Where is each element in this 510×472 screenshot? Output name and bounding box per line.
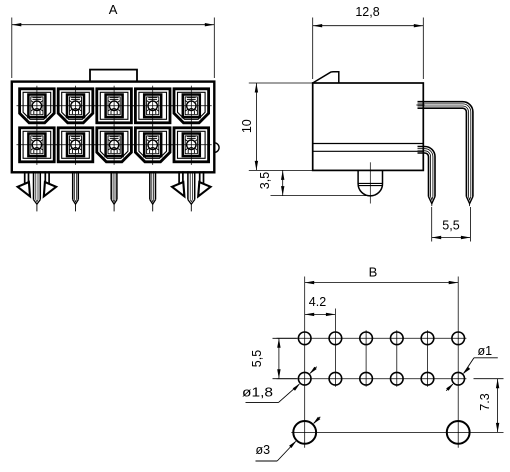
- pin upper row side view (right angle): [418, 102, 473, 206]
- row 2 centerline: [277, 378, 467, 380]
- dimension 7.3 extension top: [474, 378, 504, 380]
- dimension 10 extension bottom: [249, 169, 318, 171]
- label diameter 1 with leader: [446, 344, 498, 391]
- cavity bottom row position 4: [132, 125, 173, 165]
- big holes centerline: [291, 431, 503, 433]
- pin hole row 2 col 2 (diameter 1): [329, 372, 342, 385]
- dimension A extension line right: [213, 18, 215, 79]
- connector housing side view body: [313, 83, 424, 170]
- dimension 12,8 extension line left: [312, 18, 314, 80]
- svg-text:3,5: 3,5: [258, 172, 272, 189]
- column line 1: [304, 277, 306, 448]
- column line 6: [457, 277, 459, 448]
- pin 4 front view: [150, 171, 156, 211]
- pin lower row side view (right angle): [418, 147, 436, 207]
- dimension 10 line with arrows: [255, 83, 258, 170]
- dimension 4.2 line with arrows: [305, 313, 336, 316]
- pin 2 front view: [73, 171, 79, 211]
- dimension 5,5 side line with arrows: [432, 236, 471, 239]
- cavity top row position 5: [171, 86, 212, 126]
- dimension 5,5 footprint extension top: [273, 337, 297, 339]
- row 1 centerline: [277, 337, 467, 339]
- pin hole row 1 col 2 (diameter 1): [329, 332, 342, 345]
- mounting peg side view: [358, 170, 382, 196]
- peg chord line 1: [358, 182, 382, 184]
- cavity bottom row position 3: [94, 125, 135, 165]
- dimension A extension line left: [11, 18, 13, 79]
- dimension 5,5 side extension right: [469, 207, 471, 242]
- svg-text:B: B: [369, 265, 378, 280]
- pin hole row 1 col 1 (diameter 1): [298, 332, 311, 345]
- pin hole row 1 col 4 (diameter 1): [391, 332, 404, 345]
- svg-text:ø3: ø3: [256, 443, 271, 457]
- pin hole row 1 col 6 (diameter 1): [452, 332, 465, 345]
- pin hole row 2 col 3 (diameter 1): [360, 372, 373, 385]
- dimension 10 extension top: [249, 82, 313, 84]
- cavity bottom row position 2: [55, 125, 96, 165]
- peg hole left (diameter 3): [293, 421, 316, 444]
- dimension 5,5 side extension left: [431, 207, 433, 242]
- peg centerline: [369, 162, 371, 203]
- cavity top row position 2: [55, 86, 96, 126]
- dimension 5,5 footprint extension bottom: [273, 378, 297, 380]
- flange line lower: [313, 150, 424, 152]
- pin hole row 2 col 1 (diameter 1): [298, 372, 311, 385]
- label diameter 1,8 with leader: [242, 367, 317, 403]
- retention peg with barbs position 1: [18, 171, 57, 196]
- label diameter 3 with leader: [256, 417, 321, 461]
- pin hole row 2 col 6 (diameter 1): [452, 372, 465, 385]
- dimension 3,5 line with arrows: [281, 170, 284, 195]
- column line 5: [427, 330, 429, 387]
- dimension 5,5 footprint line with arrows: [277, 338, 280, 378]
- cavity top row position 4: [132, 86, 173, 126]
- svg-text:4.2: 4.2: [309, 295, 326, 309]
- pin center tick upper: [416, 104, 424, 106]
- connector housing front view body: [12, 82, 215, 173]
- peg hole right (diameter 3): [447, 421, 470, 444]
- dimension 12,8 line with arrows: [313, 24, 424, 27]
- cavity bottom row position 1: [17, 125, 58, 165]
- dimension B line with arrows: [305, 281, 459, 284]
- polarization bump right side: [214, 143, 219, 153]
- top mounting tab: [90, 70, 137, 82]
- column line 4: [396, 330, 398, 387]
- latch tab side view: [313, 72, 339, 83]
- peg chord line 2: [358, 185, 382, 187]
- dimension 7.3 line with arrows: [496, 379, 499, 433]
- pin 1 front view: [34, 171, 41, 211]
- svg-text:10: 10: [240, 119, 254, 133]
- column line 3: [365, 330, 367, 387]
- dimension 12,8 extension line right: [422, 18, 424, 80]
- cavity bottom row position 5: [171, 125, 212, 165]
- svg-text:A: A: [109, 2, 118, 17]
- svg-text:5,5: 5,5: [442, 219, 459, 233]
- pin 5 front view: [188, 171, 195, 211]
- pin hole row 2 col 5 (diameter 1): [421, 372, 434, 385]
- cavity top row position 1: [17, 86, 58, 126]
- pin 3 front view: [111, 171, 117, 211]
- svg-text:7.3: 7.3: [478, 393, 492, 410]
- svg-text:12,8: 12,8: [355, 5, 379, 19]
- pin hole row 2 col 4 (diameter 1): [391, 372, 404, 385]
- dimension 3,5 extension bottom: [271, 195, 369, 197]
- svg-text:ø1: ø1: [478, 344, 493, 358]
- pin hole row 1 col 5 (diameter 1): [421, 332, 434, 345]
- svg-text:ø1,8: ø1,8: [242, 386, 273, 400]
- dimension A line with arrows: [12, 23, 215, 26]
- flange line upper: [313, 143, 424, 145]
- svg-text:5,5: 5,5: [250, 350, 264, 367]
- pin hole row 1 col 3 (diameter 1): [360, 332, 373, 345]
- cavity top row position 3: [94, 86, 135, 126]
- retention peg with barbs position 5: [172, 171, 211, 196]
- column line 2: [334, 309, 336, 387]
